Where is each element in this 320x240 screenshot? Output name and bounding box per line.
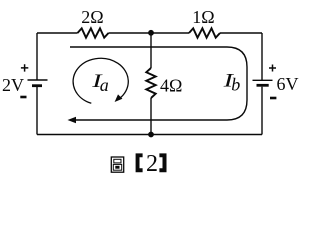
supermesh loop arrowhead: [68, 117, 77, 123]
junction node top: [148, 30, 154, 36]
wire right side upper: [261, 33, 263, 80]
svg-text:6V: 6V: [277, 74, 299, 94]
resistor 2Ω zigzag: [78, 28, 109, 37]
caption glyph 圖 (drawn): [111, 157, 123, 172]
svg-text:a: a: [100, 75, 109, 95]
resistor 4Ω zigzag: [146, 68, 155, 98]
svg-text:b: b: [231, 74, 240, 94]
caption bracket 】: [159, 153, 166, 172]
battery V2 6V long plate: [253, 79, 273, 81]
junction node bottom: [148, 132, 154, 138]
svg-text:2V: 2V: [2, 75, 24, 95]
mesh current Ia arc: [73, 58, 128, 103]
svg-text:2Ω: 2Ω: [81, 7, 103, 27]
plus sign of V2: [269, 65, 276, 72]
wire bottom: [37, 134, 262, 136]
minus sign of V1: [20, 96, 26, 99]
battery V1 2V short thick plate: [32, 84, 42, 87]
svg-text:2: 2: [146, 151, 158, 177]
wire middle branch upper: [150, 33, 152, 68]
wire right side lower: [261, 87, 263, 135]
wire left side upper: [36, 33, 38, 80]
wire top-left segment: [37, 32, 78, 34]
wire left side lower: [36, 87, 38, 135]
caption bracket 【: [136, 153, 143, 172]
wire top-middle segment: [109, 32, 190, 34]
battery V2 6V short thick plate: [257, 84, 269, 87]
plus sign of V1: [21, 64, 28, 71]
resistor 1Ω zigzag: [189, 28, 220, 37]
svg-text:4Ω: 4Ω: [160, 76, 182, 96]
minus sign of V2: [270, 97, 276, 100]
supermesh current loop line: [70, 47, 247, 120]
svg-text:1Ω: 1Ω: [192, 7, 214, 27]
wire middle branch lower: [150, 98, 152, 135]
wire top-right segment: [220, 32, 262, 34]
mesh current Ia arrowhead: [115, 94, 123, 102]
battery V1 2V long plate: [28, 79, 48, 81]
